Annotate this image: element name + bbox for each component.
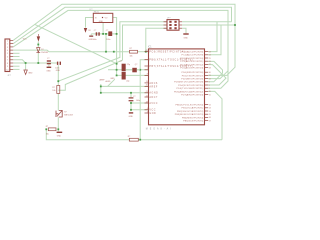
svg-text:10k: 10k [130, 56, 133, 58]
svg-text:19: 19 [146, 81, 148, 83]
wire AVCC rail y92.8 [101, 92, 149, 94]
wire xtal rail lower y75.4 [117, 74, 149, 76]
ground bar at rail left end [89, 36, 93, 37]
crystal Q1 on xtal rail [132, 68, 137, 73]
svg-text:30: 30 [209, 72, 211, 74]
svg-text:C?: C? [94, 30, 96, 32]
load capacitor C6 vertical upper [122, 64, 126, 72]
svg-text:PB1(OC1A/PCINT1): PB1(OC1A/PCINT1) [182, 107, 204, 110]
wire connector pin7 jog to rail [13, 60, 25, 63]
svg-text:25: 25 [209, 58, 211, 60]
svg-text:VCC: VCC [23, 38, 28, 40]
svg-text:28: 28 [209, 67, 211, 69]
svg-text:4: 4 [7, 50, 8, 52]
svg-text:GND: GND [56, 70, 61, 72]
resistor R3 above switch [57, 86, 60, 94]
capacitor C2 on rail at regulator output [108, 31, 112, 36]
svg-text:PD6(AIN0/OC0A/PCINT22): PD6(AIN0/OC0A/PCINT22) [174, 90, 204, 93]
svg-text:GND: GND [184, 37, 189, 39]
svg-text:22: 22 [146, 95, 148, 97]
svg-text:10k: 10k [52, 90, 55, 92]
wire cap C2b down to resistor R3 [57, 65, 59, 85]
wire VCC arrow column to diode to rail [37, 42, 39, 48]
svg-text:C?: C? [47, 58, 49, 60]
svg-text:9: 9 [209, 88, 210, 90]
svg-text:15: 15 [209, 114, 211, 116]
svg-text:C?: C? [120, 61, 122, 63]
svg-text:PD4(XCK/T0/PCINT20): PD4(XCK/T0/PCINT20) [178, 85, 203, 87]
svg-text:PC6(/RESET/PCINT14): PC6(/RESET/PCINT14) [149, 52, 185, 54]
wire header row1 right to IC PC0 via vertical x217 [182, 21, 232, 23]
svg-text:31: 31 [209, 75, 211, 77]
svg-text:R?: R? [130, 48, 132, 50]
svg-text:100n: 100n [55, 67, 59, 69]
svg-text:16: 16 [209, 117, 211, 119]
wire bottom rail wrap up right side to IC PD6 [208, 91, 222, 139]
wire R4 left junction down to bottom rail [46, 129, 129, 139]
svg-text:D?: D? [41, 49, 43, 51]
wire shallow diagonal from L1 to 5V vertical [35, 25, 117, 64]
svg-text:S?: S? [64, 111, 66, 113]
svg-text:PC3(ADC3/PCINT11): PC3(ADC3/PCINT11) [180, 60, 203, 63]
wire 78L05 input pin to supply arrow [86, 18, 94, 28]
svg-text:ADC6: ADC6 [149, 82, 158, 85]
svg-text:7: 7 [147, 68, 148, 70]
capacitor C4 avcc decoupling [129, 97, 134, 98]
wire avcc cap gnd column x131 [130, 93, 132, 98]
svg-text:18: 18 [146, 101, 148, 103]
capacitor C2b at rail end [57, 62, 58, 65]
svg-text:10: 10 [6, 69, 8, 71]
IC left pins [145, 51, 149, 53]
svg-text:22p: 22p [127, 64, 130, 66]
svg-text:PB0(ICP1/CLKO/PCINT0): PB0(ICP1/CLKO/PCINT0) [175, 105, 203, 107]
svg-text:4: 4 [147, 108, 148, 110]
wire switch bottom to junction [57, 117, 59, 129]
diode D1 vertical [37, 48, 40, 53]
IC right pins [205, 51, 209, 53]
svg-text:PD2(INT0/PCINT18): PD2(INT0/PCINT18) [181, 79, 203, 81]
svg-text:12: 12 [209, 104, 211, 106]
wire header row2 left drop and diagonal to switch [58, 25, 167, 90]
svg-text:13: 13 [209, 108, 211, 110]
resistor R1 reset pullup inline [130, 50, 138, 53]
wire xtal rail upper y69.8 [108, 69, 149, 71]
wire header row3 left then down to reset rail [146, 28, 167, 52]
svg-text:11: 11 [209, 94, 211, 96]
svg-text:100n: 100n [93, 39, 97, 41]
svg-text:2: 2 [7, 44, 8, 46]
wire spur from L3 vertical to IC PD2 [208, 71, 228, 79]
connector JP1 10-pin header left [5, 39, 10, 72]
svg-text:PD0(RXD/PCINT16): PD0(RXD/PCINT16) [182, 72, 204, 74]
svg-text:100n: 100n [136, 100, 140, 102]
wire 5V rail y33.9 [91, 33, 116, 35]
wire hairpin IC PD1 loop to PD5 [208, 65, 226, 85]
wire header row1 left drop and diagonal to switch resistor [58, 22, 167, 81]
svg-text:29: 29 [146, 50, 148, 52]
svg-text:PC5(ADC5/PCINT13): PC5(ADC5/PCINT13) [180, 67, 203, 70]
svg-text:PC1(ADC1/PCINT9): PC1(ADC1/PCINT9) [182, 54, 204, 57]
wire bottom rail right of R5 [138, 139, 222, 141]
wire net L1 connector pin1 over top right edge wrap to IC PD1 [13, 4, 235, 75]
wire connector pin9 stub [13, 65, 19, 67]
svg-text:78L05: 78L05 [94, 12, 99, 14]
load capacitor C7 vertical lower [122, 72, 126, 80]
junction dots [25, 62, 27, 64]
capacitor C3 on rail [47, 60, 51, 61]
svg-text:AGND: AGND [149, 92, 158, 95]
svg-text:2: 2 [209, 85, 210, 87]
svg-text:3: 3 [7, 47, 8, 49]
wire GND arrow drop from rail [25, 63, 27, 70]
svg-text:PD1(TXD/PCINT17): PD1(TXD/PCINT17) [182, 75, 204, 77]
ISP header JP2 2x3 [167, 20, 179, 31]
svg-text:AGND: AGND [106, 80, 112, 83]
wire 78L05 output down the 5V vertical to xtal rails [113, 18, 117, 76]
ground bar below header [183, 33, 188, 34]
svg-text:PB3(MOSI/OC2A/PCINT3): PB3(MOSI/OC2A/PCINT3) [175, 113, 204, 116]
wire header row3 right to ground [182, 28, 186, 33]
svg-text:100n: 100n [106, 39, 110, 41]
svg-text:GND: GND [149, 113, 156, 115]
wire net L3 connector pin3 top route wrap to IC PD5 [13, 10, 228, 88]
ground bar below switch junction [57, 132, 63, 133]
svg-text:B3F-10XX: B3F-10XX [64, 115, 73, 117]
svg-text:R?: R? [52, 87, 54, 89]
wire supply rail y63 from connector pin8 [13, 62, 57, 64]
svg-text:3: 3 [147, 111, 148, 113]
wire resistor R3 down to switch [57, 93, 59, 110]
svg-text:PD7(AIN1/PCINT23): PD7(AIN1/PCINT23) [181, 94, 203, 97]
svg-text:AREF: AREF [149, 85, 158, 88]
svg-text:GND: GND [28, 73, 33, 75]
supply arrow +9V at regulator input [84, 28, 87, 33]
svg-text:PB2(/SS/OC1B/PCINT2): PB2(/SS/OC1B/PCINT2) [177, 111, 204, 113]
svg-text:24: 24 [209, 55, 211, 57]
svg-text:R?: R? [46, 126, 48, 128]
svg-text:ADC7: ADC7 [149, 96, 158, 99]
supply arrow VCC top left column [37, 36, 40, 41]
wire aref net label vertical [100, 84, 102, 93]
svg-text:1N4148: 1N4148 [41, 52, 48, 54]
svg-text:14: 14 [209, 111, 211, 113]
svg-text:GND: GND [57, 136, 62, 138]
svg-text:7: 7 [7, 60, 8, 62]
wire header row2 right to IC PC1 via vertical x221 [182, 24, 235, 26]
svg-text:10: 10 [209, 91, 211, 93]
svg-text:27: 27 [209, 64, 211, 66]
ground bar below C4 [129, 112, 133, 113]
svg-text:PC4(ADC4/PCINT12): PC4(ADC4/PCINT12) [180, 63, 203, 66]
resistor R5 inline on bottom rail [129, 138, 138, 141]
wire AREF rail y86.4 [101, 85, 149, 87]
svg-text:9: 9 [7, 66, 8, 68]
svg-text:PC2(ADC2/PCINT10): PC2(ADC2/PCINT10) [180, 57, 203, 60]
svg-text:1: 1 [209, 82, 210, 84]
svg-text:IC?: IC? [90, 9, 93, 11]
capacitor C1 inline on rail [96, 32, 98, 35]
svg-text:GND: GND [99, 21, 104, 23]
ground arrow below rail [24, 70, 27, 75]
wire reset net connector pin4 to rail [13, 50, 129, 52]
voltage regulator IC3 78L05 box [93, 13, 113, 22]
svg-text:10k: 10k [46, 134, 49, 136]
svg-text:1: 1 [7, 40, 8, 42]
ground bar below C3 [47, 67, 52, 68]
svg-text:C?: C? [106, 30, 108, 32]
svg-text:R?: R? [128, 136, 130, 138]
svg-text:MEGA8-AI: MEGA8-AI [146, 128, 173, 131]
resistor R4 below switch [48, 128, 56, 131]
wire gnd stub at rail left end [90, 34, 92, 35]
svg-text:21: 21 [146, 91, 148, 93]
svg-text:PD5(T1/OC0B/PCINT21): PD5(T1/OC0B/PCINT21) [177, 88, 204, 90]
wire connector pin6 stub [13, 56, 19, 58]
svg-text:VCC: VCC [149, 110, 156, 112]
wire 5V vertical to reset rail [105, 34, 107, 52]
wire connector pin10 stub [13, 68, 19, 70]
svg-text:26: 26 [209, 61, 211, 63]
wire hairpin IC PD0 loop to PD3 [208, 61, 222, 81]
svg-text:PD3(INT1/OC2B/PCINT19): PD3(INT1/OC2B/PCINT19) [174, 82, 203, 84]
wire connector pin5 stub [13, 52, 19, 54]
svg-text:AREF: AREF [100, 78, 106, 81]
svg-text:PC0(ADC0/PCINT8): PC0(ADC0/PCINT8) [182, 51, 204, 54]
svg-text:20: 20 [146, 85, 148, 87]
svg-text:Q?: Q? [135, 64, 138, 66]
wire reset rail right of resistor to IC PC6 [138, 51, 149, 53]
svg-text:PB5(SCK/PCINT5): PB5(SCK/PCINT5) [183, 121, 203, 123]
svg-text:17: 17 [209, 120, 211, 122]
svg-text:GND: GND [89, 39, 94, 41]
svg-text:22p: 22p [126, 80, 129, 82]
wire gnd diagonal from resonator to avcc rail area [108, 79, 115, 86]
wire gnd stub right of R4 [57, 129, 59, 131]
svg-text:8: 8 [7, 63, 8, 65]
svg-text:23: 23 [209, 51, 211, 53]
IC1 MEGA8-AI microcontroller box [149, 49, 205, 125]
svg-text:6: 6 [7, 56, 8, 58]
svg-text:32: 32 [209, 78, 211, 80]
wire stub to IC VCC pin [131, 109, 149, 111]
wire xtal1 pin link down to bottom rail [140, 60, 148, 140]
switch S1 [56, 111, 58, 117]
svg-text:GND: GND [129, 116, 134, 118]
svg-text:5: 5 [7, 53, 8, 55]
svg-text:C?: C? [133, 96, 135, 98]
wire 78L05 gnd pin down to rail [102, 23, 104, 34]
wire stub to IC AVCC pin [131, 102, 149, 104]
svg-text:8: 8 [147, 74, 148, 76]
svg-text:PB4(MISO/PCINT4): PB4(MISO/PCINT4) [182, 117, 204, 119]
svg-text:AVCC: AVCC [149, 102, 158, 105]
wire cap C3 gnd stub [48, 64, 50, 66]
wire net L2 connector pin2 top route joins header row1 extension [13, 7, 231, 43]
svg-text:GND: GND [46, 70, 51, 72]
